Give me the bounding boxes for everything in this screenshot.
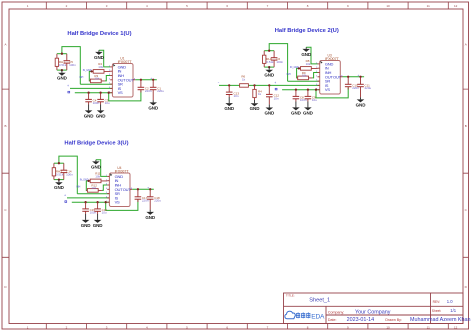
svg-text:3: 3 [109, 74, 110, 76]
wire: IN resistor left elbow [86, 181, 88, 191]
ground below chain shunt resistor [254, 100, 256, 103]
junction VS under-IC branch [105, 201, 107, 203]
net flag VS input [68, 91, 70, 93]
svg-text:100n: 100n [69, 63, 76, 67]
junction OUT electrolytic cap [359, 76, 361, 78]
svg-text:11: 11 [427, 4, 430, 8]
svg-text:Half Bridge Device 1(U): Half Bridge Device 1(U) [67, 31, 131, 37]
capacitor C17 220n (OUT) [137, 189, 139, 202]
resistor R12 10k (INH) [86, 189, 102, 191]
junction at IN resistor left [298, 67, 300, 69]
wire: GND net from top ground to pin GND [99, 50, 110, 67]
wire: riser from pair top to SR line [59, 156, 77, 194]
wire: pair bottom bus [57, 69, 67, 71]
svg-text:GND: GND [145, 215, 156, 220]
svg-text:10k: 10k [91, 186, 96, 190]
wire: GND net from top ground to pin GND [96, 160, 107, 177]
ground below slew pair [58, 180, 60, 183]
svg-text:INH: INH [79, 77, 83, 79]
junction on pair bottom [268, 66, 270, 68]
capacitor C3 10u (VS) [100, 93, 102, 105]
wire: OUT net to bulk caps [135, 79, 157, 81]
junction OUT ceramic cap [347, 76, 349, 78]
svg-text:IFX007T: IFX007T [115, 169, 130, 173]
ground below electrolytic cap [152, 100, 154, 102]
ground below VS cap 1 [295, 102, 297, 108]
svg-text:12: 12 [454, 325, 458, 329]
svg-text:IFX007T: IFX007T [118, 60, 133, 64]
wire: VS net [72, 201, 110, 203]
svg-text:1.0: 1.0 [447, 299, 453, 304]
junction OUT electrolytic cap [152, 79, 154, 81]
svg-text:IFX007T: IFX007T [325, 57, 340, 61]
junction VS cap 2 [99, 92, 101, 94]
svg-text:GND: GND [94, 55, 105, 60]
capacitor C6 100n [273, 51, 275, 67]
svg-text:2: 2 [106, 179, 107, 181]
svg-text:4: 4 [106, 188, 107, 190]
svg-text:Sheet:: Sheet: [432, 309, 442, 313]
ground below chain cap 1 [228, 97, 230, 103]
junction VS cap 1 [295, 89, 297, 91]
svg-text:EDA: EDA [311, 314, 325, 321]
wire: IN resistor left elbow [297, 68, 299, 78]
ground below chain cap 2 [268, 104, 270, 107]
op-amp driver U: U3 IFX007T [316, 53, 342, 94]
resistor RH3 [53, 163, 55, 179]
wire: IS net [70, 87, 112, 89]
svg-text:100n: 100n [66, 172, 73, 176]
ground at IC GND pin [95, 160, 97, 162]
net flag VS input [65, 201, 67, 203]
svg-text:1/1: 1/1 [450, 308, 456, 313]
title block border [284, 293, 464, 324]
svg-text:3: 3 [106, 184, 107, 186]
svg-text:4: 4 [109, 78, 110, 80]
svg-text:INH: INH [287, 74, 291, 76]
wire: SR net [77, 193, 109, 195]
capacitor C2 220n (OUT) [140, 80, 142, 93]
capacitor C12 10n [268, 85, 270, 104]
svg-text:Muhammad Azeem Khan: Muhammad Azeem Khan [410, 317, 471, 323]
junction OUT electrolytic cap [149, 188, 151, 190]
svg-text:+: + [67, 84, 69, 88]
svg-text:10n: 10n [274, 96, 279, 100]
svg-text:Company:: Company: [328, 311, 344, 315]
svg-text:8: 8 [131, 188, 132, 190]
ground below electrolytic cap [360, 97, 362, 99]
resistor R4 1k (shunt) [254, 85, 256, 100]
svg-text:+: + [358, 73, 360, 77]
ground below slew pair [61, 70, 63, 73]
junction VS cap 1 [87, 92, 89, 94]
capacitor C1 220u polarized (OUT) [152, 80, 154, 100]
capacitor C8 100n (VS) [295, 90, 297, 102]
capacitor C14 100n [63, 163, 65, 179]
svg-text:Half Bridge Device 2(U): Half Bridge Device 2(U) [275, 28, 339, 34]
svg-text:IN_GND: IN_GND [83, 70, 92, 72]
capacitor C9 10u (VS) [307, 90, 309, 102]
wire: IS net (input RC chain) [219, 84, 320, 86]
resistor R11 10k (IN) [89, 180, 108, 182]
svg-text:+: + [150, 76, 152, 80]
junction chain shunt resistor [253, 84, 255, 86]
svg-text:2: 2 [316, 67, 317, 69]
svg-text:1: 1 [106, 175, 107, 177]
svg-text:GND: GND [264, 73, 275, 78]
svg-text:10: 10 [386, 4, 390, 8]
svg-text:12: 12 [454, 4, 458, 8]
junction VS cap 1 [84, 201, 86, 203]
wire: INH resistor right elbow [102, 185, 107, 190]
svg-text:10k: 10k [302, 73, 307, 77]
svg-text:GND: GND [93, 223, 104, 228]
svg-text:3: 3 [316, 71, 317, 73]
svg-text:5: 5 [106, 192, 107, 194]
capacitor C10 220n (OUT) [347, 77, 349, 90]
wire: pair bottom bus [264, 66, 274, 68]
svg-text:8: 8 [341, 75, 342, 77]
svg-text:10: 10 [386, 325, 390, 329]
capacitor C13 10n [228, 85, 230, 97]
junction OUT ceramic cap [140, 79, 142, 81]
ground below VS cap 2 [307, 102, 309, 108]
svg-text:B: B [4, 124, 6, 128]
ground below VS cap 2 [97, 214, 99, 220]
wire: VS net [75, 92, 113, 94]
junction VS cap 2 [96, 201, 98, 203]
svg-text:+: + [147, 185, 149, 189]
junction VS cap 2 [307, 89, 309, 91]
op-amp driver U: U4 IFX007T [106, 166, 132, 207]
svg-text:10k: 10k [98, 65, 103, 69]
svg-text:GND: GND [84, 113, 95, 118]
capacitor C5 100n [66, 54, 68, 70]
svg-text:4: 4 [316, 75, 317, 77]
svg-text:10u: 10u [312, 98, 317, 102]
junction OUT ceramic cap [137, 188, 139, 190]
capacitor C15 100n (VS) [85, 202, 87, 214]
svg-text:1: 1 [109, 66, 110, 68]
svg-text:GND: GND [301, 52, 312, 57]
wire: IS net [67, 197, 109, 199]
svg-text:1k: 1k [258, 92, 262, 96]
svg-text:INH: INH [76, 187, 80, 189]
svg-text:10k: 10k [95, 174, 100, 178]
wire: riser from pair top to SR line [269, 44, 287, 82]
svg-text:6: 6 [316, 84, 317, 86]
ground below VS cap 1 [85, 214, 87, 220]
capacitor C4 100n (VS) [88, 93, 90, 105]
svg-text:220u: 220u [157, 89, 164, 93]
svg-text:Drawn By:: Drawn By: [385, 318, 402, 322]
junction VS under-IC branch [108, 92, 110, 94]
svg-text:Date:: Date: [328, 318, 337, 322]
svg-text:8: 8 [134, 78, 135, 80]
wire: OUT net to bulk caps [343, 76, 365, 78]
svg-text:GND: GND [96, 113, 107, 118]
svg-text:IN_GND: IN_GND [80, 180, 89, 182]
ground at IC GND pin [98, 50, 100, 52]
wire: INH resistor right elbow [312, 73, 317, 78]
svg-text:A: A [4, 43, 6, 47]
svg-text:10k: 10k [94, 76, 99, 80]
svg-text:GND: GND [54, 185, 65, 190]
wire: IN resistor left elbow [89, 71, 91, 81]
svg-text:Your Company: Your Company [355, 310, 391, 316]
junction on pair top [58, 162, 60, 164]
svg-text:GND: GND [250, 106, 261, 111]
svg-text:IN_GND: IN_GND [290, 67, 299, 69]
ground below electrolytic cap [149, 210, 151, 212]
ground at IC GND pin [305, 47, 307, 49]
svg-text:6: 6 [106, 197, 107, 199]
svg-text:GND: GND [81, 223, 92, 228]
wire: resistor/cap pair top bus [57, 53, 67, 55]
svg-text:A: A [465, 43, 467, 47]
ground below VS cap 2 [100, 105, 102, 111]
svg-text:REV:: REV: [433, 300, 441, 304]
wire: resistor/cap pair top bus [264, 50, 274, 52]
svg-text:10u: 10u [102, 211, 107, 215]
svg-text:VS: VS [118, 90, 123, 95]
junction on pair top [268, 50, 270, 52]
junction chain cap 1 [228, 84, 230, 86]
resistor RH2 [263, 51, 265, 67]
svg-text:VS: VS [325, 87, 330, 92]
junction at IN resistor left [87, 180, 89, 182]
wire: OUT net to bulk caps [132, 188, 154, 190]
op-amp driver U: U1 IFX007T [109, 56, 135, 97]
resistor R2 10k (IN) [92, 70, 111, 72]
svg-text:10k: 10k [306, 62, 311, 66]
svg-text:TITLE:: TITLE: [286, 294, 295, 298]
svg-text:GND: GND [356, 102, 367, 107]
resistor R3 10k (INH) [89, 80, 105, 82]
wire: VS branch under IC to ceramic cap bottom [109, 91, 141, 101]
svg-text:1k: 1k [242, 77, 246, 81]
capacitor C18 220u polarized (OUT) [149, 189, 151, 209]
wire: VS branch under IC to ceramic cap bottom [106, 200, 138, 210]
svg-text:Half Bridge Device 3(U): Half Bridge Device 3(U) [64, 141, 128, 147]
wire: INH resistor right elbow [105, 76, 110, 81]
svg-text:VS: VS [115, 200, 120, 205]
ground below VS cap 1 [88, 105, 90, 111]
svg-text:+: + [64, 194, 66, 198]
svg-text:GND: GND [224, 106, 235, 111]
wire: GND net from top ground to pin GND [306, 47, 317, 64]
svg-text:GND: GND [291, 110, 302, 115]
junction VS under-IC branch [315, 89, 317, 91]
svg-text:2023-01-14: 2023-01-14 [347, 317, 375, 323]
junction on pair top [61, 53, 63, 55]
svg-text:10n: 10n [234, 94, 239, 98]
svg-text:GND: GND [148, 105, 159, 110]
svg-text:5: 5 [316, 80, 317, 82]
junction on pair bottom [58, 178, 60, 180]
svg-text:GND: GND [303, 110, 314, 115]
wire: resistor/cap pair top bus [54, 162, 64, 164]
wire: SR net [80, 83, 112, 85]
svg-text:GND: GND [57, 76, 68, 81]
wire: riser from pair top to SR line [62, 47, 80, 85]
svg-text:11: 11 [427, 325, 430, 329]
svg-text:100n: 100n [276, 60, 283, 64]
capacitor C11 220u polarized (OUT) [360, 77, 362, 97]
wire: VS branch under IC to ceramic cap bottom [316, 88, 348, 98]
junction chain cap 2 [268, 84, 270, 86]
frame row letters [4, 43, 467, 290]
wire: SR net [288, 80, 320, 82]
ground below slew pair [268, 67, 270, 70]
svg-text:GND: GND [91, 164, 102, 169]
svg-text:6: 6 [109, 87, 110, 89]
resistor RH1 [56, 54, 58, 70]
svg-text:5: 5 [109, 83, 110, 85]
junction on pair bottom [61, 69, 63, 71]
svg-text:GND: GND [264, 110, 275, 115]
svg-text:B: B [465, 124, 467, 128]
wire: VS net [282, 89, 320, 91]
resistor R9 10k (INH) [297, 77, 313, 79]
capacitor C16 10u (VS) [97, 202, 99, 214]
EasyEDA logo cloud icon [285, 311, 295, 318]
svg-text:1: 1 [316, 63, 317, 65]
svg-text:10u: 10u [105, 101, 110, 105]
wire: pair bottom bus [54, 179, 64, 181]
svg-text:2: 2 [109, 70, 110, 72]
junction at IN resistor left [90, 70, 92, 72]
svg-text:Sheet_1: Sheet_1 [309, 298, 330, 304]
EasyEDA logo text [296, 312, 310, 318]
resistor R8 10k (IN) [299, 67, 318, 69]
resistor R6 1k (series) [240, 84, 249, 88]
svg-text:220u: 220u [154, 199, 161, 203]
net flag VS input [275, 88, 277, 90]
svg-text:220u: 220u [365, 86, 372, 90]
svg-text:+: + [274, 81, 276, 85]
